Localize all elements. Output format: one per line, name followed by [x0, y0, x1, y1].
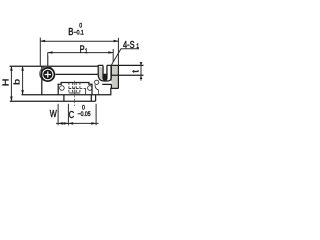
svg-text:H: H	[1, 78, 11, 86]
svg-text:4-S: 4-S	[123, 39, 135, 50]
svg-text:b: b	[12, 79, 22, 85]
svg-text:B: B	[68, 26, 73, 37]
svg-text:−0.05: −0.05	[78, 111, 92, 118]
svg-text:P: P	[80, 43, 85, 54]
svg-text:C: C	[69, 109, 74, 120]
svg-text:W: W	[50, 108, 58, 119]
svg-text:−0.1: −0.1	[74, 30, 85, 37]
